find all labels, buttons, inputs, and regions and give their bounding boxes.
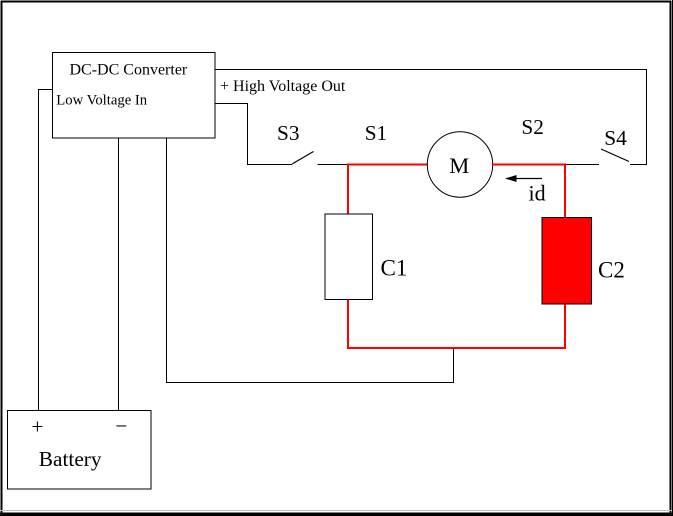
capacitor C1: [325, 214, 373, 300]
battery B1: [8, 411, 152, 490]
switch S4 blade: [601, 149, 629, 162]
svg-text:DC-DC Converter: DC-DC Converter: [70, 62, 188, 79]
svg-text:Battery: Battery: [39, 447, 102, 471]
svg-text:Low Voltage In: Low Voltage In: [56, 93, 147, 109]
wire: converter HV output to S3 left contact: [215, 104, 292, 165]
svg-text:id: id: [529, 181, 546, 206]
wire: converter bottom to battery −: [118, 138, 120, 411]
switch S3 blade: [292, 152, 314, 165]
wire: motor to node S2 (red): [492, 164, 566, 166]
current arrow id: [505, 175, 542, 182]
svg-text:−: −: [115, 414, 127, 438]
wire: battery + to converter Low Voltage In: [39, 90, 53, 411]
wire: high voltage top rail to S4 right contact: [215, 70, 647, 165]
wire: node S1 to capacitor C1 (red): [347, 164, 349, 215]
wire: node S2 to capacitor C2 (red): [564, 164, 566, 218]
svg-text:S1: S1: [365, 121, 388, 145]
wire: converter return to bottom rail junction: [167, 138, 454, 383]
wire: node S1 to motor (red): [347, 164, 428, 166]
svg-text:+ High Voltage Out: + High Voltage Out: [220, 78, 346, 95]
svg-text:S2: S2: [521, 115, 544, 139]
svg-text:C1: C1: [381, 256, 408, 281]
svg-text:M: M: [449, 153, 469, 178]
svg-text:S4: S4: [604, 126, 627, 150]
wire: node S2 to switch S4: [566, 164, 599, 166]
svg-text:+: +: [31, 415, 43, 439]
motor M: [427, 132, 492, 197]
wire: S3 to node S1: [318, 164, 349, 166]
capacitor C2: [542, 218, 592, 305]
wire: C1 bottom to C2 bottom (red): [348, 300, 565, 349]
DC-DC converter: [53, 53, 216, 139]
svg-text:S3: S3: [277, 121, 300, 145]
svg-text:C2: C2: [598, 258, 625, 283]
